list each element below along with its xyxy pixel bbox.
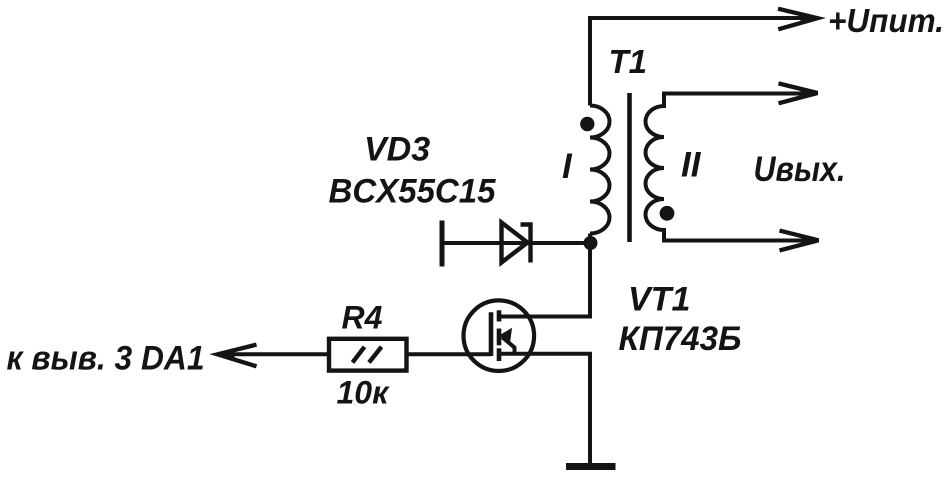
label Uвых. bbox=[754, 150, 846, 189]
wire drain stub horizontal bbox=[499, 315, 592, 319]
svg-text:R4: R4 bbox=[342, 300, 383, 336]
ground bbox=[566, 463, 616, 470]
label VT1 bbox=[628, 281, 690, 319]
arrow secondary top bbox=[779, 83, 819, 103]
label T1 bbox=[609, 43, 648, 80]
wire secondary bottom output bbox=[662, 239, 806, 243]
label VD3 bbox=[364, 131, 430, 169]
label BCX55C15 bbox=[329, 173, 497, 211]
wire primary top lead vertical bbox=[588, 16, 592, 106]
wire secondary top output bbox=[662, 92, 805, 96]
transistor VT1 circle bbox=[464, 300, 535, 371]
svg-text:10к: 10к bbox=[337, 375, 391, 411]
zener diode VD3 left terminal bar bbox=[440, 221, 445, 267]
label II bbox=[681, 146, 702, 185]
arrow secondary bottom bbox=[780, 231, 820, 251]
label +Uпит. bbox=[828, 2, 944, 39]
junction dot drain node bbox=[584, 236, 598, 250]
label I bbox=[562, 147, 573, 186]
transistor VT1 channel middle segment bbox=[497, 329, 502, 346]
zener diode VD3 triangle bbox=[502, 223, 528, 263]
wire drain riser vertical bbox=[588, 234, 592, 317]
label КП743Б bbox=[619, 320, 742, 358]
transistor VT1 substrate arrowhead bbox=[499, 328, 512, 344]
wire zener anode bbox=[442, 241, 588, 245]
transformer T1 primary winding I bbox=[590, 106, 610, 234]
resistor R4 power slashes bbox=[353, 347, 382, 363]
polarity dot secondary bbox=[660, 206, 675, 221]
polarity dot primary bbox=[580, 117, 594, 131]
transistor VT1 gate bar bbox=[489, 312, 494, 356]
arrow to +Upit bbox=[778, 9, 819, 30]
transistor VT1 substrate link bbox=[502, 337, 515, 354]
svg-text:КП743Б: КП743Б bbox=[619, 320, 742, 358]
svg-text:VT1: VT1 bbox=[628, 281, 690, 319]
wire source stub horizontal bbox=[499, 352, 592, 356]
wire source down to ground bbox=[588, 354, 592, 463]
arrow to DA1 pin 3 bbox=[217, 345, 257, 367]
wire resistor to gate bbox=[407, 352, 492, 356]
svg-text:+Uпит.: +Uпит. bbox=[828, 2, 944, 39]
wire arrow to resistor bbox=[222, 352, 330, 356]
svg-text:Uвых.: Uвых. bbox=[754, 150, 846, 189]
zener diode VD3 cathode bar with hook bbox=[521, 225, 531, 263]
label 10к bbox=[337, 375, 391, 411]
transistor VT1 channel bottom segment bbox=[497, 348, 502, 361]
svg-text:VD3: VD3 bbox=[364, 131, 430, 169]
transformer T1 secondary winding II bbox=[646, 94, 665, 241]
svg-text:II: II bbox=[681, 146, 702, 185]
wire top supply horizontal bbox=[588, 16, 806, 20]
svg-text:BCX55C15: BCX55C15 bbox=[329, 173, 497, 211]
label к выв. 3 DA1 bbox=[7, 340, 205, 378]
transformer T1 core bbox=[627, 93, 632, 242]
label R4 bbox=[342, 300, 383, 336]
resistor R4 body bbox=[329, 339, 407, 371]
svg-text:T1: T1 bbox=[609, 43, 648, 80]
svg-text:к выв. 3 DA1: к выв. 3 DA1 bbox=[7, 340, 205, 378]
svg-text:I: I bbox=[562, 147, 573, 186]
transistor VT1 channel top segment bbox=[497, 310, 502, 321]
